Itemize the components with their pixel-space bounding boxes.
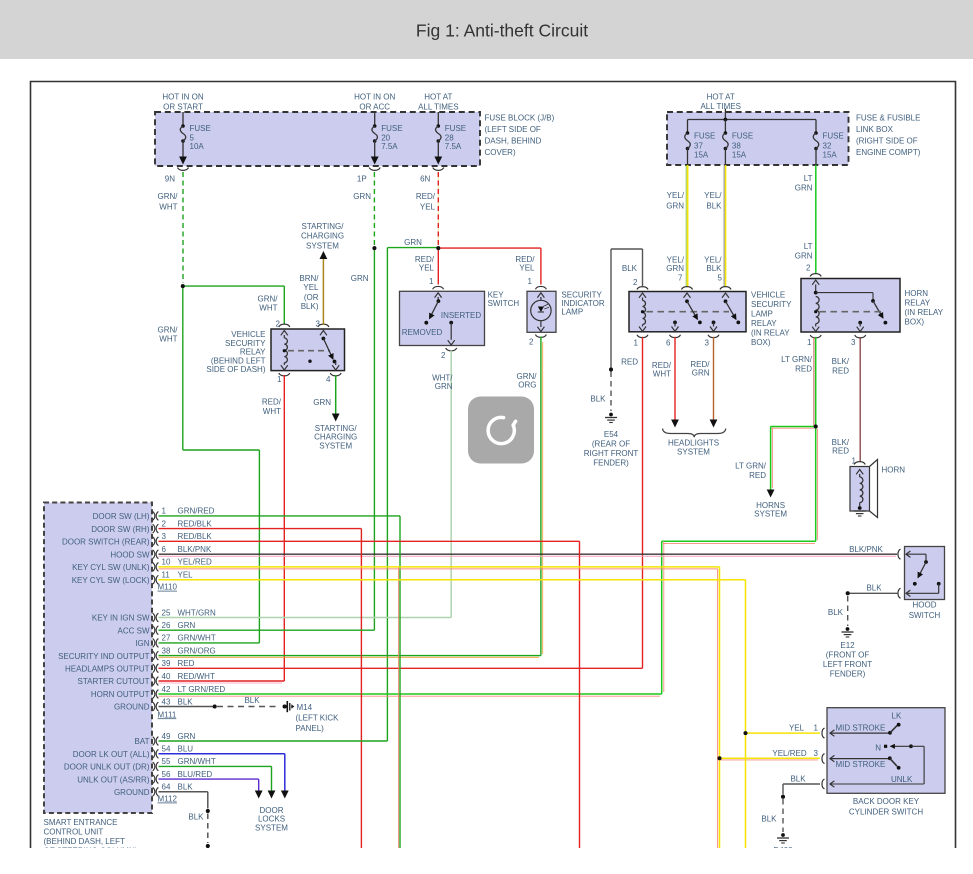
brace headlights system <box>663 429 726 438</box>
pin 2 (back door key cyl switch) <box>822 779 825 789</box>
wire 6N RED/YEL dashed <box>437 172 439 245</box>
svg-text:BLK: BLK <box>706 201 722 210</box>
svg-text:(IN RELAY: (IN RELAY <box>905 308 944 317</box>
svg-text:GRN/: GRN/ <box>158 326 179 335</box>
wire 1P GRN dashed <box>373 172 375 245</box>
svg-text:RIGHT FRONT: RIGHT FRONT <box>584 449 639 458</box>
pin 6 (vs lamp relay) <box>673 321 677 325</box>
svg-text:(FRONT OF: (FRONT OF <box>826 651 870 660</box>
horn relay switch arm <box>873 301 883 318</box>
pin 1 GRN/RED (DOOR SW (LH)) smart entrance control unit <box>153 512 155 521</box>
svg-text:3: 3 <box>162 532 167 541</box>
svg-text:RED/WHT: RED/WHT <box>178 672 215 681</box>
wire RED/WHT vs lamp relay pin6 to headlights system <box>674 337 676 420</box>
wire pin11 YEL key cyl sw lock <box>159 579 746 581</box>
svg-text:RED: RED <box>832 367 849 376</box>
svg-text:(LEFT KICK: (LEFT KICK <box>296 714 340 723</box>
svg-text:1P: 1P <box>357 175 367 184</box>
svg-text:GROUND: GROUND <box>114 788 150 797</box>
wire pin27 GRN/WHT stub <box>159 642 260 644</box>
svg-text:GRN: GRN <box>795 184 813 193</box>
pin 3 (back door key cyl switch) <box>822 754 825 764</box>
svg-text:RED/: RED/ <box>262 398 282 407</box>
svg-text:3: 3 <box>814 749 819 758</box>
svg-text:HOT IN ON: HOT IN ON <box>162 93 203 102</box>
svg-text:7.5A: 7.5A <box>445 142 462 151</box>
switch: hood switch box <box>905 547 945 600</box>
svg-text:PANEL): PANEL) <box>296 724 325 733</box>
svg-text:LT: LT <box>804 174 813 183</box>
svg-text:(OR: (OR <box>304 293 319 302</box>
svg-text:BLK: BLK <box>188 813 204 822</box>
wire YEL/RED to back door pin 3 <box>718 756 722 760</box>
svg-text:DOOR SW (RH): DOOR SW (RH) <box>91 525 150 534</box>
svg-text:DOOR SWITCH (REAR): DOOR SWITCH (REAR) <box>62 538 150 547</box>
svg-text:E12: E12 <box>840 641 855 650</box>
svg-text:GRN: GRN <box>666 201 684 210</box>
svg-text:GRN/WHT: GRN/WHT <box>178 634 216 643</box>
svg-text:GRN: GRN <box>666 264 684 273</box>
svg-text:3: 3 <box>851 338 856 347</box>
ground E54 <box>609 413 613 417</box>
svg-text:FENDER): FENDER) <box>830 670 866 679</box>
svg-text:BLK: BLK <box>590 395 606 404</box>
svg-text:BRN/: BRN/ <box>299 274 319 283</box>
wire RED vs lamp relay pin1 to headlamps output pin 39 <box>642 337 644 669</box>
pin 3 (vs lamp relay) <box>712 321 716 325</box>
key switch arm removed position <box>437 297 439 301</box>
svg-text:HORN: HORN <box>882 466 906 475</box>
svg-text:2: 2 <box>276 320 281 329</box>
svg-text:3: 3 <box>705 339 710 348</box>
node junction GRN/WHT <box>181 284 185 288</box>
pin 11 YEL (KEY CYL SW (LOCK)) smart entrance control unit <box>153 575 155 584</box>
wire BLK back door pin 2 to ground <box>783 783 820 785</box>
pin 1 (vehicle security relay) <box>279 373 290 376</box>
svg-text:3: 3 <box>316 320 321 329</box>
svg-text:SWITCH: SWITCH <box>488 299 520 308</box>
pin 2 (security indicator lamp) <box>535 335 546 338</box>
pin 26 GRN (ACC SW) smart entrance control unit <box>153 626 155 635</box>
svg-text:WHT: WHT <box>159 335 177 344</box>
svg-text:BLU: BLU <box>178 745 194 754</box>
pin 3 (vehicle security relay) <box>318 324 329 327</box>
fuse 20 <box>374 112 376 126</box>
svg-text:Fig 1: Anti-theft Circuit: Fig 1: Anti-theft Circuit <box>416 21 588 41</box>
svg-text:15A: 15A <box>694 151 709 160</box>
svg-text:42: 42 <box>162 685 171 694</box>
svg-text:ORG: ORG <box>518 381 536 390</box>
svg-text:YEL: YEL <box>519 264 535 273</box>
svg-text:LT GRN/: LT GRN/ <box>735 462 767 471</box>
svg-text:SYSTEM: SYSTEM <box>255 824 288 833</box>
wire pin26 GRN stub <box>159 629 375 631</box>
hood switch internals <box>906 551 910 557</box>
svg-text:1: 1 <box>814 724 819 733</box>
svg-text:GRN: GRN <box>178 732 196 741</box>
lamp circle with LED symbol <box>540 297 542 300</box>
ground D408 <box>781 833 785 837</box>
svg-text:REMOVED: REMOVED <box>402 328 443 337</box>
svg-text:M110: M110 <box>158 583 178 592</box>
svg-text:GRN/WHT: GRN/WHT <box>178 757 216 766</box>
wire BRN/YEL (OR BLK) to starting/charging system <box>322 259 324 326</box>
wire LT GRN/RED branch to horns system <box>771 427 814 429</box>
svg-text:CYLINDER SWITCH: CYLINDER SWITCH <box>849 808 923 817</box>
svg-text:LOCKS: LOCKS <box>258 815 285 824</box>
wire 9N GRN/WHT dashed <box>182 172 184 283</box>
svg-text:RED: RED <box>749 471 766 480</box>
junction dots overlay <box>372 246 376 250</box>
svg-text:BLK: BLK <box>178 697 194 706</box>
svg-text:M14: M14 <box>297 703 313 712</box>
svg-text:RED/BLK: RED/BLK <box>178 519 213 528</box>
svg-text:IGN: IGN <box>135 639 149 648</box>
bus wire hot at all times <box>724 109 726 120</box>
svg-text:6: 6 <box>666 339 671 348</box>
svg-text:WHT: WHT <box>653 370 671 379</box>
svg-text:64: 64 <box>162 783 171 792</box>
svg-text:SYSTEM: SYSTEM <box>677 448 710 457</box>
svg-text:OR START: OR START <box>163 103 203 112</box>
pin 55 GRN/WHT (DOOR UNLK OUT (DR)) smart entrance control unit <box>153 762 155 771</box>
svg-text:(LEFT SIDE OF: (LEFT SIDE OF <box>485 125 541 134</box>
svg-text:SECURITY: SECURITY <box>225 339 266 348</box>
svg-text:BLK: BLK <box>178 783 194 792</box>
svg-text:1: 1 <box>528 277 533 286</box>
pin 2 (horn relay) <box>810 274 821 277</box>
wire WHT/GRN key switch to key-in-ign pin 25 <box>450 351 452 618</box>
wire BLK/RED horn relay pin3 to horn <box>859 337 861 462</box>
svg-text:SECURITY IND OUTPUT: SECURITY IND OUTPUT <box>58 652 150 661</box>
connector pin 6N <box>433 168 444 171</box>
svg-text:GRN: GRN <box>692 369 710 378</box>
svg-text:CHARGING: CHARGING <box>301 232 344 241</box>
svg-text:SECURITY: SECURITY <box>751 300 792 309</box>
svg-text:RED: RED <box>178 659 195 668</box>
wire RED/WHT relay pin1 to starter cutout pin 40 <box>283 375 285 681</box>
wire BLK vs lamp relay pin2 to ground E54 <box>642 249 644 288</box>
svg-text:WHT: WHT <box>263 407 281 416</box>
fuse 28 <box>437 112 439 126</box>
svg-text:LT GRN/RED: LT GRN/RED <box>178 685 226 694</box>
wire YEL to back door pin 1 <box>744 731 748 735</box>
svg-text:FUSE BLOCK (J/B): FUSE BLOCK (J/B) <box>485 114 555 123</box>
svg-text:CONTROL UNIT: CONTROL UNIT <box>44 828 104 837</box>
svg-text:VEHICLE: VEHICLE <box>751 291 785 300</box>
pin 1 (hood switch) <box>898 549 901 559</box>
svg-text:HOOD: HOOD <box>913 601 937 610</box>
pin 5 (vs lamp relay) <box>720 287 731 290</box>
svg-text:(BEHIND DASH, LEFT: (BEHIND DASH, LEFT <box>44 837 125 846</box>
svg-text:HEADLIGHTS: HEADLIGHTS <box>668 438 719 447</box>
svg-text:YEL: YEL <box>420 203 436 212</box>
svg-text:2: 2 <box>633 278 638 287</box>
horn component <box>850 467 870 512</box>
svg-text:RELAY: RELAY <box>240 348 266 357</box>
svg-text:BLK: BLK <box>866 583 882 592</box>
svg-text:OF STEERING COLUMN): OF STEERING COLUMN) <box>44 847 138 856</box>
pin 2 (key switch) <box>446 348 457 351</box>
svg-text:11: 11 <box>162 571 171 580</box>
svg-text:1: 1 <box>429 277 434 286</box>
svg-text:LEFT FRONT: LEFT FRONT <box>823 660 872 669</box>
svg-text:4: 4 <box>326 375 331 384</box>
svg-text:SWITCH: SWITCH <box>909 611 941 620</box>
pin 2 (vehicle security relay) <box>279 324 290 327</box>
wire pin2 RED/BLK door sw RH <box>159 528 362 530</box>
svg-text:FUSE & FUSIBLE: FUSE & FUSIBLE <box>856 114 920 123</box>
svg-text:LK: LK <box>892 711 902 720</box>
wire LT GRN fuse 32 to horn relay pin 2 <box>815 165 817 273</box>
wire pin3 RED/BLK door switch rear <box>159 540 580 542</box>
pin 39 RED (HEADLAMPS OUTPUT) smart entrance control unit <box>153 664 155 673</box>
svg-text:E54: E54 <box>604 430 619 439</box>
svg-text:6N: 6N <box>420 175 430 184</box>
pin 40 RED/WHT (STARTER CUTOUT) smart entrance control unit <box>153 677 155 686</box>
svg-text:7.5A: 7.5A <box>381 142 398 151</box>
svg-text:HORN: HORN <box>905 289 929 298</box>
svg-text:26: 26 <box>162 621 171 630</box>
svg-text:M112: M112 <box>158 795 178 804</box>
relay: vehicle security lamp relay box <box>629 292 746 332</box>
svg-text:SYSTEM: SYSTEM <box>319 441 352 450</box>
svg-text:32: 32 <box>823 142 832 151</box>
pin 1 (horn relay) <box>810 335 821 338</box>
wire YEL/BLK fuse 38 to relay pin 5 <box>723 165 725 287</box>
svg-text:10: 10 <box>162 558 171 567</box>
wire pin43 BLK ground to M14 <box>159 706 214 708</box>
relay: horn relay box <box>801 279 900 333</box>
svg-text:40: 40 <box>162 672 171 681</box>
svg-text:LT: LT <box>804 242 813 251</box>
node junction RED/YEL <box>436 246 440 250</box>
svg-text:FUSE: FUSE <box>190 124 211 133</box>
svg-text:YEL/RED: YEL/RED <box>772 749 806 758</box>
svg-text:54: 54 <box>162 745 171 754</box>
svg-text:BLK: BLK <box>706 264 722 273</box>
svg-text:1: 1 <box>807 338 812 347</box>
svg-text:25: 25 <box>162 608 171 617</box>
svg-text:2: 2 <box>806 264 811 273</box>
pin 27 GRN/WHT (IGN) smart entrance control unit <box>153 639 155 648</box>
svg-text:MID STROKE: MID STROKE <box>836 724 886 733</box>
wire BLK/PNK hood sw pin 6 to hood switch <box>159 555 897 557</box>
pin 3 RED/BLK (DOOR SWITCH (REAR)) smart entrance control unit <box>153 537 155 546</box>
wire pin1 GRN/RED door sw LH <box>159 515 401 517</box>
svg-text:LAMP: LAMP <box>751 310 773 319</box>
svg-text:RELAY: RELAY <box>751 319 777 328</box>
svg-text:FUSE: FUSE <box>445 124 466 133</box>
svg-text:SMART ENTRANCE: SMART ENTRANCE <box>44 818 118 827</box>
wire GRN down to ACC SW pin 26 <box>373 248 375 630</box>
svg-text:BLU/RED: BLU/RED <box>178 770 213 779</box>
svg-text:ALL TIMES: ALL TIMES <box>418 103 458 112</box>
svg-text:GRN: GRN <box>178 621 196 630</box>
svg-text:YEL/RED: YEL/RED <box>178 558 212 567</box>
relay switch arm <box>322 337 326 341</box>
svg-text:YEL: YEL <box>789 724 805 733</box>
svg-text:LT GRN/: LT GRN/ <box>781 355 813 364</box>
svg-text:(BEHIND LEFT: (BEHIND LEFT <box>211 356 266 365</box>
svg-text:RED/: RED/ <box>416 192 436 201</box>
svg-text:BLK: BLK <box>622 264 638 273</box>
pin 1 (back door key cyl switch) <box>822 728 825 738</box>
node junction LT GRN/RED <box>814 425 818 429</box>
svg-text:KEY IN IGN SW: KEY IN IGN SW <box>92 614 150 623</box>
svg-text:YEL: YEL <box>419 264 435 273</box>
svg-text:1: 1 <box>277 375 282 384</box>
svg-text:HOT IN ON: HOT IN ON <box>354 93 395 102</box>
svg-text:37: 37 <box>694 142 703 151</box>
vs lamp relay dashed link <box>647 311 730 313</box>
wire pin55 GRN/WHT door unlk out <box>159 765 272 767</box>
svg-text:RED: RED <box>832 447 849 456</box>
svg-text:SYSTEM: SYSTEM <box>754 510 787 519</box>
pin 7 (vs lamp relay) <box>682 287 693 290</box>
fuse 32 <box>815 120 817 134</box>
svg-text:DOOR SW (LH): DOOR SW (LH) <box>93 512 150 521</box>
svg-text:N: N <box>875 744 881 753</box>
svg-text:RED/BLK: RED/BLK <box>178 532 213 541</box>
svg-text:38: 38 <box>732 142 741 151</box>
pin 3 (horn relay) <box>858 321 862 325</box>
svg-text:STARTER CUTOUT: STARTER CUTOUT <box>77 677 149 686</box>
pin 2 RED/BLK (DOOR SW (RH)) smart entrance control unit <box>153 524 155 533</box>
horn relay coil <box>816 297 819 324</box>
wire GRN relay pin4 to starting/charging system <box>335 375 337 414</box>
svg-text:9N: 9N <box>165 175 175 184</box>
wire GRN/WHT down to IGN pin 27 <box>182 286 184 450</box>
svg-text:15A: 15A <box>823 151 838 160</box>
svg-text:2: 2 <box>162 519 167 528</box>
svg-text:D408: D408 <box>773 846 793 855</box>
wire LT GRN/RED horn relay pin1 to horn output pin 42 <box>813 337 815 427</box>
lamp: security indicator lamp box <box>527 291 556 332</box>
svg-text:(REAR OF: (REAR OF <box>592 440 630 449</box>
wire pin49 GRN bat <box>159 740 388 742</box>
svg-text:56: 56 <box>162 770 171 779</box>
wire pin64 BLK ground M112 <box>159 791 208 793</box>
connector pin 1P <box>369 168 380 171</box>
svg-text:HOOD SW: HOOD SW <box>110 550 150 559</box>
svg-text:BAT: BAT <box>135 737 150 746</box>
svg-text:FUSE: FUSE <box>823 132 844 141</box>
pin 2 (vs lamp relay) <box>637 287 648 290</box>
ground (horn) <box>858 506 862 510</box>
pin 64 BLK (GROUND) smart entrance control unit <box>153 787 155 796</box>
switch: key switch box <box>400 291 485 345</box>
svg-text:10A: 10A <box>190 142 205 151</box>
relay: vehicle security relay box <box>271 329 345 371</box>
wire BLK hood switch to ground E12 <box>848 592 898 594</box>
svg-text:ACC SW: ACC SW <box>118 626 150 635</box>
svg-text:GRN: GRN <box>435 382 453 391</box>
svg-text:RED: RED <box>795 365 812 374</box>
pin 2 (hood switch) <box>898 588 901 598</box>
svg-text:BACK DOOR KEY: BACK DOOR KEY <box>853 797 920 806</box>
svg-text:55: 55 <box>162 757 171 766</box>
pin 42 LT GRN/RED (HORN OUTPUT) smart entrance control unit <box>153 690 155 699</box>
svg-text:M111: M111 <box>158 710 177 719</box>
svg-text:DOOR UNLK OUT (DR): DOOR UNLK OUT (DR) <box>64 763 150 772</box>
svg-text:GRN: GRN <box>313 398 331 407</box>
pin 56 BLU/RED (UNLK OUT (AS/RR)) smart entrance control unit <box>153 775 155 784</box>
svg-text:WHT: WHT <box>259 304 277 313</box>
svg-text:38: 38 <box>162 646 171 655</box>
svg-text:BOX): BOX) <box>905 318 925 327</box>
wire RED/YEL to key switch pin 1 <box>437 248 439 284</box>
svg-text:RELAY: RELAY <box>905 299 931 308</box>
svg-text:49: 49 <box>162 732 171 741</box>
svg-text:BLK/PNK: BLK/PNK <box>849 545 883 554</box>
svg-text:WHT: WHT <box>159 203 177 212</box>
wire GRN from junction to BAT pin 49 <box>387 247 438 249</box>
svg-text:UNLK: UNLK <box>891 775 913 784</box>
svg-text:KEY CYL SW (LOCK): KEY CYL SW (LOCK) <box>72 576 150 585</box>
vs lamp relay switch arm B <box>724 299 728 303</box>
fuse & fusible link box <box>667 112 849 165</box>
svg-text:39: 39 <box>162 659 171 668</box>
svg-text:HORN OUTPUT: HORN OUTPUT <box>91 690 150 699</box>
svg-text:GRN: GRN <box>404 238 422 247</box>
svg-text:DOOR LK OUT (ALL): DOOR LK OUT (ALL) <box>73 750 150 759</box>
svg-text:BLK: BLK <box>828 608 844 617</box>
svg-text:OR ACC: OR ACC <box>359 103 390 112</box>
svg-text:STARTING/: STARTING/ <box>302 222 345 231</box>
fuse block (J/B) box <box>155 112 480 166</box>
wire RED/GRN vs lamp relay pin3 to headlights system <box>713 337 715 420</box>
svg-text:(RIGHT SIDE OF: (RIGHT SIDE OF <box>856 137 918 146</box>
vs lamp relay coil <box>642 298 644 301</box>
horn relay internal node <box>815 285 817 293</box>
svg-text:YEL: YEL <box>178 571 194 580</box>
svg-text:6: 6 <box>162 545 167 554</box>
svg-text:GRN: GRN <box>353 192 371 201</box>
svg-text:(IN RELAY: (IN RELAY <box>751 329 790 338</box>
svg-text:GRN/RED: GRN/RED <box>178 507 215 516</box>
wire YEL/GRN fuse 37 to relay pin 7 <box>685 165 687 287</box>
svg-text:BLK: BLK <box>761 815 777 824</box>
svg-text:ALL TIMES: ALL TIMES <box>700 102 740 111</box>
wire pin54 BLU door lk out <box>159 753 285 755</box>
fuse 5 <box>182 112 184 126</box>
svg-text:FENDER): FENDER) <box>593 459 629 468</box>
svg-text:WHT/GRN: WHT/GRN <box>178 608 216 617</box>
svg-text:FUSE: FUSE <box>381 124 402 133</box>
pin 38 GRN/ORG (SECURITY IND OUTPUT) smart entrance control unit <box>153 651 155 660</box>
svg-text:27: 27 <box>162 634 171 643</box>
header bar <box>0 0 973 59</box>
wire pin10 YEL/RED key cyl sw unlk <box>159 568 718 570</box>
svg-text:2: 2 <box>529 338 534 347</box>
svg-text:FUSE: FUSE <box>732 132 753 141</box>
vs lamp relay switch arm A <box>685 299 689 303</box>
pin 6 BLK/PNK (HOOD SW) smart entrance control unit <box>153 550 155 559</box>
svg-text:GRN/ORG: GRN/ORG <box>178 646 216 655</box>
switch: back door key cylinder switch box <box>827 708 945 794</box>
svg-text:LAMP: LAMP <box>561 308 583 317</box>
pin 25 WHT/GRN (KEY IN IGN SW) smart entrance control unit <box>153 613 155 622</box>
svg-text:INSERTED: INSERTED <box>441 311 482 320</box>
svg-text:1: 1 <box>162 507 167 516</box>
svg-text:7: 7 <box>678 273 683 282</box>
svg-text:UNLK OUT (AS/RR): UNLK OUT (AS/RR) <box>77 775 150 784</box>
svg-text:DASH, BEHIND: DASH, BEHIND <box>485 137 542 146</box>
svg-text:FUSE: FUSE <box>694 132 715 141</box>
relay dashed link <box>288 350 330 352</box>
svg-text:YEL/: YEL/ <box>704 191 722 200</box>
